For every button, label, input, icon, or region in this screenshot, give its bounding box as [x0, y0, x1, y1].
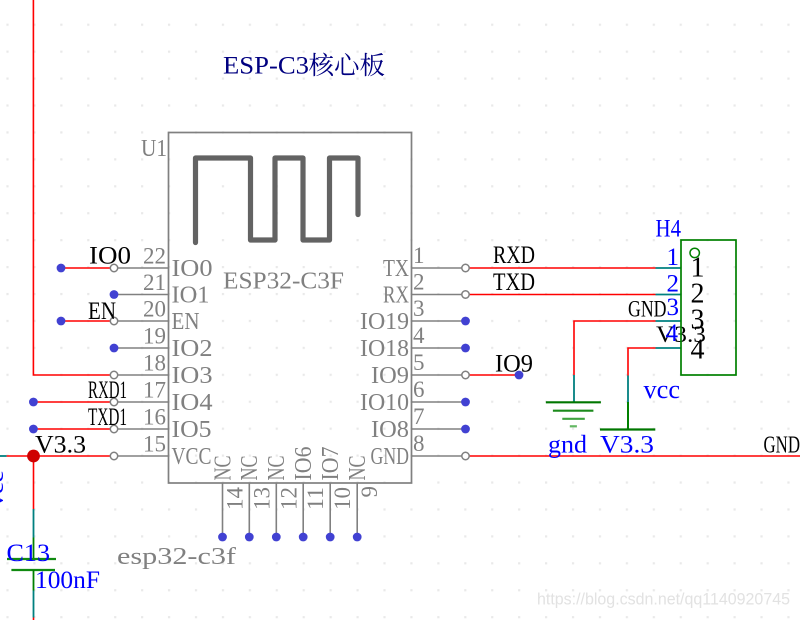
svg-text:IO2: IO2	[172, 336, 213, 362]
svg-text:4: 4	[691, 335, 705, 366]
svg-text:IO1: IO1	[172, 283, 210, 309]
title text ESP-C3 core board	[223, 53, 384, 80]
svg-text:GND: GND	[371, 444, 410, 470]
svg-text:2: 2	[413, 270, 425, 295]
svg-text:11: 11	[303, 487, 328, 510]
wire net TXD1 to pin 16	[33, 428, 110, 430]
svg-text:V3.3: V3.3	[600, 432, 654, 459]
svg-text:20: 20	[143, 297, 166, 322]
svg-text:1: 1	[667, 244, 680, 271]
node TXD1 wire end dot	[29, 425, 38, 434]
wire C13 bottom pin (teal)	[33, 591, 35, 618]
svg-text:IO4: IO4	[172, 390, 213, 416]
svg-text:https://blog.csdn.net/qq114092: https://blog.csdn.net/qq1140920745	[537, 590, 790, 609]
svg-text:IO3: IO3	[172, 363, 213, 389]
svg-text:NC: NC	[210, 456, 236, 481]
svg-text:IO7: IO7	[318, 447, 344, 481]
svg-text:22: 22	[143, 244, 166, 269]
wire H4 pin3 stub	[656, 320, 682, 322]
svg-text:4: 4	[666, 320, 679, 347]
pin 22 left (IO0)	[110, 264, 168, 271]
svg-text:IO8: IO8	[371, 417, 409, 443]
ground symbol	[546, 402, 601, 426]
svg-text:EN: EN	[172, 309, 200, 335]
pin 12 bottom (NC)	[272, 483, 281, 541]
svg-text:H4: H4	[656, 216, 682, 243]
node IO9 wire end dot	[515, 371, 524, 380]
wire net RXD from pin 1	[469, 267, 656, 269]
svg-text:vcc: vcc	[644, 375, 681, 404]
svg-text:GND: GND	[628, 297, 667, 322]
pin 5 right (IO9)	[412, 371, 470, 378]
svg-text:U1: U1	[141, 136, 167, 162]
pin 3 right (IO19)	[412, 317, 470, 326]
svg-text:IO18: IO18	[360, 336, 409, 362]
svg-text:NC: NC	[237, 456, 263, 481]
pin 16 left (IO5)	[110, 425, 168, 432]
svg-text:RXD1: RXD1	[88, 377, 127, 404]
wire net V3.3 bottom edge (red)	[33, 618, 35, 620]
svg-text:IO10: IO10	[360, 390, 409, 416]
IC U1 body ESP32-C3F	[169, 133, 412, 484]
wire net EN to pin 20	[61, 320, 111, 322]
pin 14 bottom (NC)	[218, 483, 227, 541]
svg-text:IO19: IO19	[360, 309, 409, 335]
svg-text:12: 12	[276, 487, 301, 510]
svg-text:ESP-C3: ESP-C3	[223, 53, 309, 80]
junction V3.3	[27, 450, 40, 463]
svg-text:vcc: vcc	[0, 471, 8, 507]
wire net IO9 from pin 5	[469, 374, 519, 376]
svg-text:IO0: IO0	[172, 256, 213, 282]
pin 20 left (EN)	[110, 317, 168, 324]
svg-text:14: 14	[223, 487, 248, 511]
pin 19 left (IO2)	[110, 344, 169, 353]
svg-text:IO5: IO5	[172, 417, 212, 443]
svg-text:6: 6	[413, 377, 425, 402]
svg-text:VCC: VCC	[172, 444, 212, 470]
connector H4 body	[681, 240, 736, 375]
node IO0 wire end dot	[57, 264, 66, 273]
svg-text:9: 9	[357, 486, 382, 498]
pin 13 bottom (NC)	[245, 483, 254, 541]
wire net TXD from pin 2	[469, 294, 656, 296]
svg-text:NC: NC	[264, 456, 290, 481]
pin 10 bottom (IO7)	[326, 483, 335, 541]
svg-text:17: 17	[143, 378, 166, 403]
pin 1 right (TX)	[412, 264, 470, 271]
wire V3.3 flag pin (teal)	[627, 376, 629, 403]
wire ground flag pin (teal)	[573, 375, 575, 402]
svg-text:3: 3	[667, 294, 680, 321]
svg-text:TX: TX	[383, 256, 409, 282]
antenna meander symbol	[196, 158, 359, 243]
wire net V3.3 stub at left edge	[0, 455, 7, 457]
svg-text:16: 16	[143, 405, 166, 430]
node RXD1 wire end dot	[29, 398, 38, 407]
pin 7 right (IO8)	[412, 425, 470, 434]
wire H4 pin4 stub	[656, 347, 682, 349]
power flag V3.3 symbol	[600, 402, 655, 430]
svg-text:GND: GND	[764, 433, 800, 459]
wire H4 pin2 stub	[656, 294, 682, 296]
wire net RXD1 to pin 17	[33, 401, 110, 403]
svg-text:5: 5	[413, 350, 425, 375]
svg-text:7: 7	[413, 404, 425, 429]
svg-text:RX: RX	[383, 283, 409, 309]
wire net IO0 to pin 22	[61, 267, 111, 269]
capacitor C13	[7, 538, 56, 591]
pin 15 left (VCC)	[110, 452, 168, 459]
svg-text:esp32-c3f: esp32-c3f	[117, 544, 236, 570]
svg-text:100nF: 100nF	[35, 567, 100, 594]
svg-text:IO9: IO9	[495, 351, 533, 378]
svg-text:21: 21	[143, 270, 166, 295]
wire net GND H4 pin3 to ground	[574, 321, 656, 375]
pin 4 right (IO18)	[412, 344, 470, 353]
svg-text:TXD1: TXD1	[88, 404, 127, 431]
pin 6 right (IO10)	[412, 398, 470, 407]
svg-text:EN: EN	[88, 298, 116, 325]
pin 8 right (GND)	[412, 452, 470, 459]
svg-text:NC: NC	[345, 456, 371, 481]
svg-text:IO9: IO9	[371, 363, 409, 389]
svg-text:V3.3: V3.3	[35, 432, 86, 459]
svg-text:1: 1	[413, 243, 425, 268]
pin 17 left (IO4)	[110, 398, 168, 405]
wire net IO3: left vertical bus + pin18 connection	[33, 0, 110, 375]
svg-text:4: 4	[413, 323, 425, 348]
svg-text:13: 13	[249, 487, 274, 510]
svg-text:18: 18	[143, 351, 166, 376]
svg-text:3: 3	[413, 296, 425, 321]
svg-text:RXD: RXD	[493, 242, 535, 269]
pin 18 left (IO3)	[110, 371, 168, 378]
pin 11 bottom (IO6)	[299, 483, 308, 541]
connector H4 pin1 marker circle	[690, 248, 699, 257]
svg-text:IO6: IO6	[291, 447, 317, 481]
svg-text:ESP32-C3F: ESP32-C3F	[223, 269, 344, 295]
svg-text:gnd: gnd	[548, 432, 588, 459]
wire H4 pin1 stub	[656, 267, 682, 269]
wire net GND from pin 8 to right edge	[469, 455, 800, 457]
pin 2 right (RX)	[412, 291, 470, 298]
svg-text:TXD: TXD	[493, 269, 535, 296]
wire C13 top pin (teal)	[33, 509, 35, 538]
pin 9 bottom (NC)	[353, 483, 362, 541]
node EN wire end dot	[57, 317, 66, 326]
svg-text:15: 15	[143, 432, 166, 457]
svg-text:3: 3	[691, 305, 705, 336]
wire net V3.3 to pin 15	[7, 455, 111, 457]
svg-text:8: 8	[413, 431, 425, 456]
wire net V3.3 down to C13	[33, 456, 35, 509]
wire net VCC H4 pin4 to V3.3 flag	[628, 348, 656, 376]
svg-text:10: 10	[330, 487, 355, 510]
pin 21 left (IO1)	[110, 290, 169, 299]
svg-text:C13: C13	[7, 540, 51, 567]
svg-text:19: 19	[143, 324, 166, 349]
svg-text:IO0: IO0	[89, 243, 131, 270]
